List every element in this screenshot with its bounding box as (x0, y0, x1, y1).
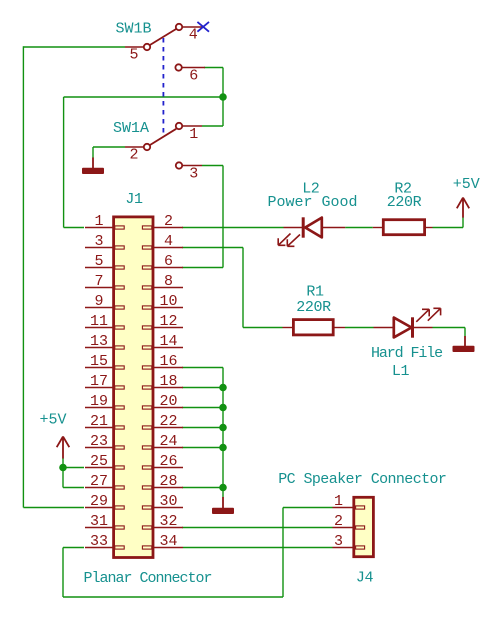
J1 pin 16 (154, 367, 184, 369)
J1 pin 8 (154, 287, 184, 289)
svg-text:34: 34 (159, 533, 177, 550)
svg-text:3: 3 (94, 233, 103, 250)
J1 pin 2 (154, 227, 184, 229)
svg-text:2: 2 (129, 147, 138, 164)
wire J1 pin16 (182, 367, 223, 369)
wire to J1 pin25 (63, 467, 84, 469)
svg-text:1: 1 (94, 213, 103, 230)
ground GND3 bar (453, 346, 475, 352)
svg-text:4: 4 (164, 233, 173, 250)
svg-text:Planar Connector: Planar Connector (83, 570, 211, 587)
wire J1 pin33 (63, 547, 84, 549)
J1 pin 23 (85, 447, 113, 449)
wire J1 pin24 (182, 447, 223, 449)
wire to J1 pin29 (23, 507, 84, 509)
svg-text:2: 2 (164, 213, 173, 230)
svg-text:6: 6 (189, 68, 198, 85)
svg-text:21: 21 (90, 413, 108, 430)
wire SW1A pin1 (202, 125, 223, 127)
svg-text:26: 26 (159, 453, 177, 470)
wire L1 to ground (433, 327, 466, 329)
svg-text:L1: L1 (392, 363, 410, 380)
J1 pin 4 (154, 247, 184, 249)
resistor R2 body (383, 220, 424, 235)
J1 pin 25 (85, 467, 113, 469)
J1 pin 3 (85, 247, 113, 249)
J4 pin 1 (333, 507, 354, 509)
power +5V symbol (right) arrow (457, 198, 469, 218)
J1 pin 21 (85, 427, 113, 429)
LED L1 left pin stub (374, 327, 394, 329)
J1 pin 32 (154, 527, 184, 529)
svg-text:31: 31 (90, 513, 108, 530)
svg-text:J4: J4 (356, 569, 374, 586)
junction +5V pin25 (59, 464, 67, 472)
J1 pin 10 (154, 307, 184, 309)
J1 pin 34 (154, 547, 184, 549)
resistor R2 left pin stub (373, 227, 384, 229)
wire J1 pin4 (182, 247, 243, 249)
svg-text:3: 3 (334, 533, 343, 550)
svg-text:1: 1 (189, 126, 198, 143)
wire down to ground GND1 (92, 147, 94, 158)
J1 pin 1 (85, 227, 113, 229)
LED L2 emission arrow 1 (278, 234, 290, 246)
svg-text:+5V: +5V (453, 176, 480, 193)
no-connect X on SW1B pin 4 (197, 22, 209, 32)
LED L1 triangle (394, 318, 412, 338)
svg-text:11: 11 (90, 313, 108, 330)
connector J4 body (354, 497, 374, 556)
svg-text:30: 30 (159, 493, 177, 510)
LED L2 emission arrow 2 (287, 235, 300, 247)
LED L2 right pin stub (323, 227, 345, 229)
wire R1 to L1 (345, 327, 374, 329)
resistor R1 left pin stub (283, 327, 295, 329)
LED L1 emission arrow 2 (428, 308, 441, 320)
wire vertical x243 to R1 (242, 248, 244, 328)
LED L1 emission arrow 1 (416, 309, 429, 322)
wire bottom horizontal y597 (63, 596, 283, 598)
wire J1 pin20 (182, 407, 223, 409)
wire +5V stub (462, 218, 464, 228)
svg-text:+5V: +5V (39, 412, 66, 429)
ground GND1 stem (92, 158, 94, 169)
switch SW1B pin 5 contact circle (144, 44, 150, 50)
wire SW1B pin5 to left bus (23, 46, 125, 48)
ground GND3 stem (464, 336, 466, 346)
svg-text:15: 15 (90, 353, 108, 370)
wire SW1B pin6 (204, 67, 223, 69)
svg-text:14: 14 (159, 333, 177, 350)
svg-text:SW1A: SW1A (113, 120, 149, 137)
J1 pin 15 (85, 367, 113, 369)
wire vertical x64 to J1 pin1 (63, 97, 65, 228)
J1 pin 31 (85, 527, 113, 529)
gang dashed link SW1B-SW1A (162, 38, 164, 135)
wire J1 pin22 (182, 427, 223, 429)
svg-text:29: 29 (90, 493, 108, 510)
svg-text:SW1B: SW1B (115, 20, 151, 37)
switch SW1A pin 3 contact circle (176, 162, 182, 168)
switch SW1A lever (150, 129, 176, 145)
resistor R2 right pin stub (425, 227, 433, 229)
svg-text:12: 12 (159, 313, 177, 330)
svg-text:5: 5 (94, 253, 103, 270)
svg-text:4: 4 (189, 27, 198, 44)
wire to J1 pin6 (182, 267, 223, 269)
svg-text:13: 13 (90, 333, 108, 350)
junction ground bus pin18 (219, 384, 227, 392)
J1 pin 30 (154, 507, 184, 509)
wire to R1 (243, 327, 283, 329)
svg-text:9: 9 (94, 293, 103, 310)
power +5V symbol (left) arrow (57, 437, 70, 459)
svg-text:16: 16 (159, 353, 177, 370)
svg-text:220R: 220R (387, 194, 422, 211)
svg-text:33: 33 (90, 533, 108, 550)
svg-text:2: 2 (334, 513, 343, 530)
wire J1 pin28 (182, 487, 223, 489)
switch SW1B pin 4 contact circle (176, 24, 182, 30)
J1 pin 17 (85, 387, 113, 389)
J1 pin 9 (85, 307, 113, 309)
junction ground bus pin28 (219, 484, 227, 492)
svg-text:24: 24 (159, 433, 177, 450)
wire vertical x223 SW1B pin6 to SW1A pin1 (222, 68, 224, 127)
junction ground bus pin20 (219, 404, 227, 412)
switch SW1A pin 3 stub (182, 165, 202, 167)
switch SW1A pin 1 stub (182, 125, 202, 127)
J1 pin 18 (154, 387, 184, 389)
svg-text:19: 19 (90, 393, 108, 410)
svg-text:J1: J1 (125, 191, 143, 208)
J1 pin 11 (85, 327, 113, 329)
J4 pin 3 (333, 547, 354, 549)
LED L2 cathode bar (302, 217, 305, 237)
svg-text:27: 27 (90, 473, 108, 490)
resistor R1 body (293, 320, 333, 335)
J1 pin 14 (154, 347, 184, 349)
svg-text:7: 7 (94, 273, 103, 290)
wire R2 to +5V (433, 227, 464, 229)
wire vertical ground bus x223 (222, 368, 224, 498)
wire horizontal y97 to junction (64, 96, 223, 98)
ground GND2 stem (222, 497, 224, 508)
switch SW1A pin 2 stub (125, 146, 143, 148)
switch SW1B pin 6 stub (182, 67, 205, 69)
wire J1 pin34 to J4 pin3 (183, 547, 333, 549)
wire J1 pin2 to LED L2 (182, 227, 284, 229)
wire J1 pin18 (182, 387, 223, 389)
svg-text:10: 10 (159, 293, 177, 310)
junction x223 y97 (219, 93, 227, 101)
J1 pin 7 (85, 287, 113, 289)
J1 pin 29 (85, 507, 113, 509)
svg-text:32: 32 (159, 513, 177, 530)
switch SW1A pin 1 contact circle (176, 123, 182, 129)
J1 pin 33 (85, 547, 113, 549)
svg-text:6: 6 (164, 253, 173, 270)
switch SW1B pin 5 stub (125, 46, 144, 48)
svg-text:220R: 220R (296, 299, 331, 316)
wire vertical x283 up to J4 pin1 (282, 508, 284, 598)
LED L1 right pin stub (414, 327, 433, 329)
switch SW1A pin 2 contact circle (144, 144, 150, 150)
J1 pin 28 (154, 487, 184, 489)
J1 pin 22 (154, 427, 184, 429)
wire to J1 pin27 (63, 487, 84, 489)
ground GND1 bar (82, 168, 104, 174)
wire left vertical bus x23 (22, 46, 24, 507)
J4 pin 2 (333, 527, 354, 529)
ground GND2 bar (212, 508, 234, 514)
wire vertical x223 SW1A pin3 to J1 pin6 (222, 166, 224, 268)
wire to J1 pin1 (64, 227, 84, 229)
LED L1 cathode bar (411, 317, 414, 337)
switch SW1B pin 6 contact circle (175, 64, 181, 70)
LED L2 anode pin stub (284, 227, 304, 229)
junction ground bus pin22 (219, 424, 227, 432)
svg-text:PC Speaker Connector: PC Speaker Connector (278, 471, 446, 488)
LED L2 triangle (305, 218, 322, 238)
J1 pin 13 (85, 347, 113, 349)
svg-text:5: 5 (129, 47, 138, 64)
svg-text:Power Good: Power Good (267, 194, 357, 211)
wire vertical x63 down (62, 548, 64, 598)
svg-text:23: 23 (90, 433, 108, 450)
svg-text:18: 18 (159, 373, 177, 390)
junction ground bus pin24 (219, 444, 227, 452)
resistor R1 right pin stub (333, 327, 345, 329)
svg-text:22: 22 (159, 413, 177, 430)
J1 pin 24 (154, 447, 184, 449)
wire to J4 pin1 (283, 507, 333, 509)
connector J1 body (114, 217, 153, 558)
svg-text:20: 20 (159, 393, 177, 410)
J1 pin 27 (85, 487, 113, 489)
J1 pin 12 (154, 327, 184, 329)
wire L2 to R2 (345, 227, 373, 229)
wire SW1A pin2 to ground (93, 146, 125, 148)
svg-text:8: 8 (164, 273, 173, 290)
wire SW1A pin3 (202, 165, 223, 167)
svg-text:28: 28 (159, 473, 177, 490)
wire +5V junction vertical (62, 458, 64, 488)
J1 pin 6 (154, 267, 184, 269)
J1 pin 19 (85, 407, 113, 409)
svg-text:Hard File: Hard File (371, 345, 443, 362)
svg-text:17: 17 (90, 373, 108, 390)
J1 pin 20 (154, 407, 184, 409)
wire J1 pin32 to J4 pin2 (182, 527, 333, 529)
svg-text:3: 3 (189, 166, 198, 183)
J1 pin 26 (154, 467, 184, 469)
svg-text:25: 25 (90, 453, 108, 470)
switch SW1B lever (150, 29, 177, 45)
svg-text:1: 1 (334, 493, 343, 510)
switch SW1B pin 4 stub (182, 26, 204, 28)
wire down to ground GND3 (464, 328, 466, 337)
J1 pin 5 (85, 267, 113, 269)
